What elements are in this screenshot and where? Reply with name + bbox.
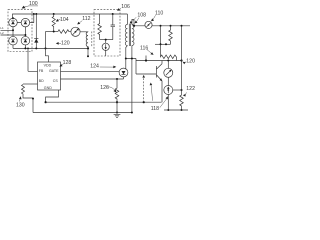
svg-text:118: 118 <box>151 106 159 112</box>
svg-text:BD: BD <box>39 79 44 83</box>
svg-text:100: 100 <box>29 1 38 7</box>
svg-text:FB: FB <box>39 69 44 73</box>
svg-text:120: 120 <box>186 59 195 65</box>
svg-text:120: 120 <box>61 41 70 47</box>
svg-text:112: 112 <box>82 16 90 22</box>
svg-text:108: 108 <box>137 12 146 18</box>
svg-text:130: 130 <box>16 103 25 109</box>
svg-text:110: 110 <box>155 11 163 17</box>
svg-text:124: 124 <box>90 64 99 70</box>
svg-text:L2: L2 <box>0 31 4 35</box>
svg-text:CS: CS <box>53 79 59 83</box>
svg-text:VDD: VDD <box>44 64 52 68</box>
svg-text:106: 106 <box>121 4 130 10</box>
svg-text:128: 128 <box>63 60 72 66</box>
svg-text:116: 116 <box>140 45 148 51</box>
svg-text:L1: L1 <box>0 26 4 30</box>
svg-text:126: 126 <box>100 85 109 91</box>
svg-text:104: 104 <box>60 17 69 23</box>
svg-text:GATE: GATE <box>49 69 59 73</box>
svg-text:122: 122 <box>186 86 195 92</box>
svg-text:GND: GND <box>44 86 52 90</box>
